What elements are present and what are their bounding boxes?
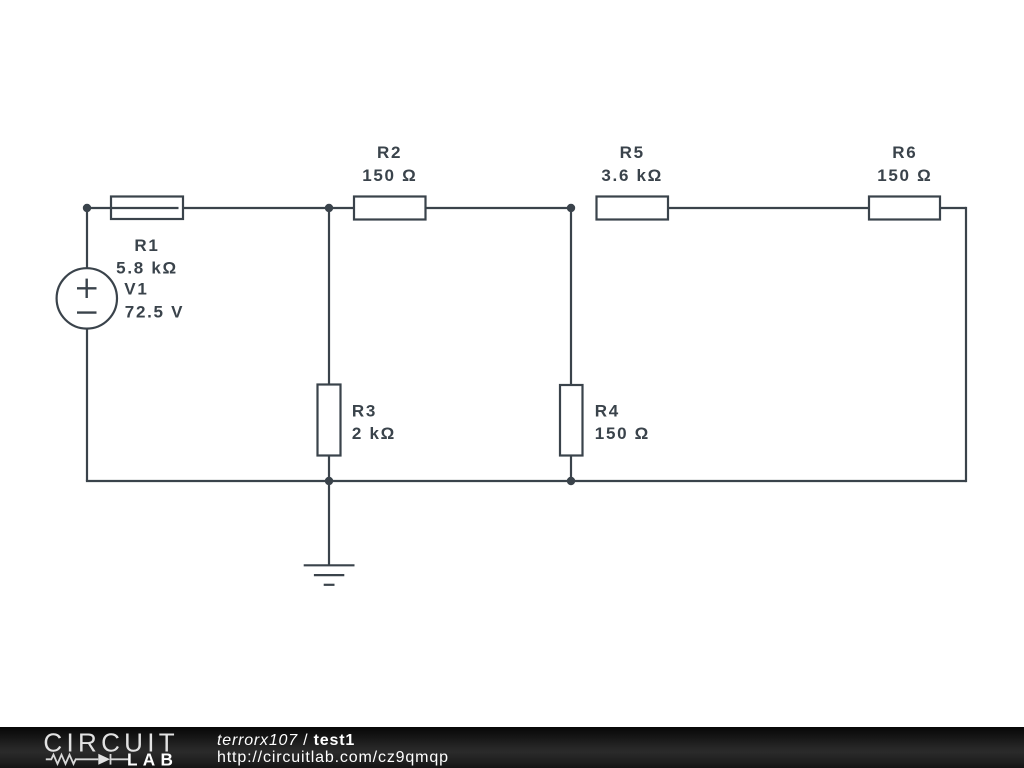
wire node A to V1 plus terminal (86, 208, 88, 269)
wire node B to R3 (328, 208, 330, 385)
wire node A through R1 body (87, 207, 179, 209)
wire R1 to node B (183, 207, 329, 209)
wire R6 to right rail (940, 207, 966, 209)
bottom rail wire (86, 480, 966, 482)
voltage source V1 (57, 268, 117, 328)
svg-text:150 Ω: 150 Ω (595, 424, 650, 443)
node A (83, 204, 91, 212)
CircuitLab logo (30, 727, 220, 768)
resistor R2 (354, 197, 426, 220)
resistor R5 (597, 197, 669, 220)
svg-text:R6: R6 (892, 143, 917, 162)
wire V1 minus terminal to bottom rail (86, 328, 88, 481)
svg-text:V1: V1 (124, 280, 148, 299)
node C (567, 204, 575, 212)
svg-text:72.5 V: 72.5 V (125, 303, 184, 322)
svg-text:R1: R1 (134, 236, 159, 255)
svg-text:150 Ω: 150 Ω (877, 166, 932, 185)
svg-text:3.6 kΩ: 3.6 kΩ (601, 166, 663, 185)
footer title text (217, 733, 355, 749)
R2 left terminal stub (329, 207, 361, 209)
logo diode (98, 754, 110, 765)
svg-text:R3: R3 (352, 401, 377, 420)
ground (304, 565, 355, 585)
wire R5 to R6 (668, 207, 869, 209)
footer url text (217, 750, 449, 766)
node B (325, 204, 333, 212)
svg-text:150 Ω: 150 Ω (362, 166, 417, 185)
resistor R3 (318, 385, 341, 456)
resistor R4 (560, 385, 583, 456)
svg-text:R4: R4 (595, 401, 620, 420)
ground node dot (325, 477, 333, 485)
svg-text:2 kΩ: 2 kΩ (352, 424, 396, 443)
wire R3 to ground node (328, 456, 330, 482)
svg-text:R5: R5 (620, 143, 645, 162)
footer bar (0, 727, 1024, 768)
wire ground node to ground symbol (328, 481, 330, 565)
wire node C to R4 (570, 208, 572, 385)
svg-text:5.8 kΩ: 5.8 kΩ (116, 258, 178, 277)
logo resistor zigzag and wire (46, 754, 129, 765)
wire R2 to node C (426, 207, 572, 209)
right rail wire (965, 207, 967, 482)
node D on bottom rail (567, 477, 575, 485)
svg-text:LAB: LAB (127, 749, 178, 768)
svg-text:R2: R2 (377, 143, 402, 162)
resistor R6 (869, 197, 940, 220)
resistor R1 (111, 197, 183, 220)
wire R4 to bottom rail node (570, 456, 572, 482)
